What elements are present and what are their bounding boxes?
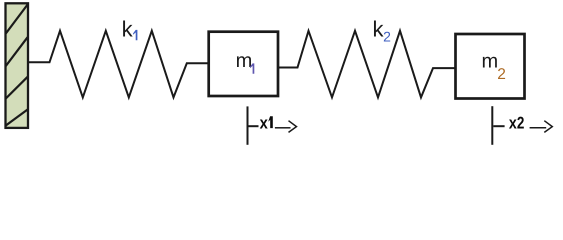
svg-text:2: 2 bbox=[517, 114, 525, 133]
svg-text:m: m bbox=[236, 50, 253, 72]
mass m2 box bbox=[456, 34, 525, 99]
spring k2 (m1 to m2) bbox=[279, 31, 455, 98]
x1 arrow shaft bbox=[275, 127, 291, 129]
wall (fixed support) bbox=[6, 3, 29, 128]
x2 arrow head bbox=[544, 121, 552, 133]
wall hatch 4 bbox=[6, 110, 28, 126]
svg-text:2: 2 bbox=[383, 28, 391, 44]
x2 tick lead line bbox=[493, 125, 504, 127]
x1 reference tick bbox=[247, 106, 249, 144]
x2 reference tick bbox=[491, 106, 493, 145]
wall hatch 1 bbox=[6, 5, 28, 34]
x1 arrow head bbox=[289, 121, 297, 133]
spring k1 (wall to m1) bbox=[28, 31, 208, 98]
svg-text:2: 2 bbox=[497, 66, 506, 83]
x2 arrow shaft bbox=[530, 127, 547, 129]
svg-text:m: m bbox=[482, 51, 499, 73]
svg-text:k: k bbox=[122, 17, 134, 42]
two-mass spring system diagram bbox=[0, 0, 563, 154]
wall hatch 3 bbox=[6, 77, 28, 99]
mass m1 box bbox=[209, 32, 278, 96]
wall hatch 2 bbox=[6, 37, 28, 66]
x1 tick lead line bbox=[249, 125, 259, 127]
svg-text:x: x bbox=[260, 114, 269, 133]
